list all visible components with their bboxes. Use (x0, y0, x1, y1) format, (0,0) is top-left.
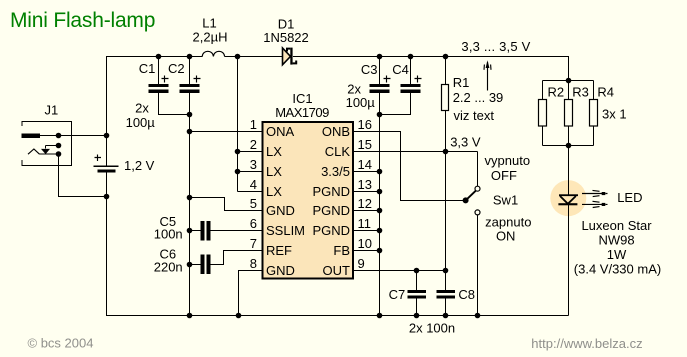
wire pin16 ONB to switch pole (353, 132, 466, 201)
wire LX rail with pins 2,3,4 (238, 56, 263, 192)
node C7 bottom junction (414, 313, 420, 319)
resistor R1 (442, 56, 449, 271)
capacitor C2 (159, 56, 201, 115)
svg-text:14: 14 (358, 157, 372, 172)
svg-text:PGND: PGND (312, 184, 350, 199)
svg-text:3: 3 (250, 157, 257, 172)
wire pin1 ONA (190, 131, 263, 133)
svg-text:16: 16 (358, 117, 372, 132)
op-amp U1: IC1 MAX1709 body (263, 122, 354, 279)
svg-text:http://www.belza.cz: http://www.belza.cz (531, 336, 642, 351)
IC1 right pin names ONB CLK 3.3/5 PGND PGND PGND FB OUT (312, 124, 350, 278)
svg-text:REF: REF (266, 243, 292, 258)
IC1 left pin names ONA LX LX LX GND SSLIM REF GND (266, 124, 305, 278)
svg-text:5: 5 (250, 196, 257, 211)
svg-text:2.2 ... 39: 2.2 ... 39 (453, 90, 504, 105)
svg-text:ONB: ONB (322, 124, 350, 139)
svg-text:LX: LX (266, 184, 282, 199)
svg-text:2x: 2x (135, 101, 149, 116)
svg-text:Luxeon Star: Luxeon Star (581, 218, 652, 233)
battery B1 1,2 V (94, 155, 119, 173)
wires pins 14,13,12,11,10 to PGND rail (353, 172, 380, 251)
node C1 top junction (156, 54, 162, 60)
node battery plus junction (104, 133, 110, 139)
node Sw1 wire/bottom bus junction (475, 313, 481, 319)
node pin1 junction (187, 129, 193, 135)
resistor R4 (590, 100, 598, 127)
svg-text:R4: R4 (597, 85, 614, 100)
svg-text:13: 13 (358, 177, 372, 192)
node pin13 junction (377, 189, 383, 195)
svg-text:7: 7 (250, 236, 257, 251)
svg-text:zapnuto: zapnuto (485, 214, 531, 229)
node C8 bottom junction (443, 313, 449, 319)
diode D1 (Schottky) (283, 48, 297, 65)
svg-text:OUT: OUT (323, 263, 351, 278)
svg-text:NW98: NW98 (598, 232, 634, 247)
svg-text:3.3/5: 3.3/5 (321, 164, 350, 179)
wire pin5 GND (190, 198, 263, 211)
svg-text:R3: R3 (572, 85, 589, 100)
node C8 top junction (443, 268, 449, 274)
svg-text:2x 100n: 2x 100n (409, 321, 455, 336)
svg-text:CLK: CLK (325, 144, 351, 159)
wire LED branch (568, 146, 570, 316)
resistor R2 (539, 100, 547, 127)
wire ground rail (C2 bottom to bottom bus) (189, 115, 191, 317)
node pin12 junction (377, 208, 383, 214)
J1 switched contact with arrow (41, 143, 61, 154)
svg-text:GND: GND (266, 203, 295, 218)
svg-text:SSLIM: SSLIM (266, 223, 305, 238)
wire bottom ground bus (107, 315, 569, 317)
capacitor C4 (380, 56, 422, 115)
svg-text:2: 2 (250, 137, 257, 152)
svg-text:ONA: ONA (266, 124, 295, 139)
svg-text:viz text: viz text (454, 108, 495, 123)
wire pin15 CLK to 3,3V node and OFF contact (353, 152, 478, 187)
capacitor C5 (187, 221, 262, 241)
node pin11 junction (377, 228, 383, 234)
svg-text:MAX1709: MAX1709 (275, 105, 329, 120)
node 3,3V junction (443, 149, 449, 155)
svg-text:GND: GND (266, 263, 295, 278)
svg-text:J1: J1 (45, 102, 59, 117)
node battery minus junction (104, 194, 110, 200)
svg-text:3,3 V: 3,3 V (450, 135, 481, 150)
svg-text:PGND: PGND (312, 203, 350, 218)
wire top supply bus (106, 56, 569, 58)
svg-text:Mini Flash-lamp: Mini Flash-lamp (10, 9, 155, 32)
wire PGND rail (C3 to bottom bus) (379, 115, 381, 317)
svg-text:3x 1: 3x 1 (602, 107, 627, 122)
svg-text:6: 6 (250, 216, 257, 231)
wire J1 tip contact to battery rail (40, 135, 107, 137)
svg-text:220n: 220n (154, 260, 183, 275)
node pin5 junction (187, 195, 193, 201)
svg-text:C8: C8 (458, 287, 475, 302)
node PGND rail/bottom bus junction (377, 313, 383, 319)
svg-text:C7: C7 (389, 287, 406, 302)
svg-text:IC1: IC1 (292, 91, 312, 106)
svg-text:C4: C4 (392, 62, 409, 77)
switch Sw1 (463, 186, 480, 215)
svg-text:© bcs 2004: © bcs 2004 (28, 335, 94, 350)
svg-text:C3: C3 (361, 62, 378, 77)
wire pin9 OUT (353, 270, 446, 272)
svg-text:9: 9 (358, 256, 365, 271)
node pin8 wire/bottom bus junction (236, 313, 242, 319)
svg-text:LX: LX (266, 144, 282, 159)
node resistor bank top junction (566, 78, 572, 84)
svg-text:4: 4 (250, 177, 257, 192)
node L1/D1 junction (235, 54, 241, 60)
wire Sw1 ON contact to bottom bus (477, 215, 479, 316)
svg-text:PGND: PGND (312, 223, 350, 238)
arrow to supply bus (487, 62, 489, 91)
svg-text:C1: C1 (139, 61, 156, 76)
value label Luxeon Star NW98 1W (3.4 V/330 mA) (574, 218, 661, 277)
node C2 top junction (187, 54, 193, 60)
node C1/C2 bottom junction (187, 112, 193, 118)
capacitor C3 (370, 56, 391, 115)
capacitor C1 (149, 56, 169, 115)
svg-text:12: 12 (358, 196, 372, 211)
wire resistor bank buses (543, 56, 594, 146)
svg-text:Sw1: Sw1 (493, 192, 518, 207)
node resistor bank bottom junction (566, 143, 572, 149)
svg-text:OFF: OFF (491, 168, 517, 183)
node pin3 junction (235, 169, 241, 175)
svg-text:3,3 ... 3,5 V: 3,3 ... 3,5 V (461, 39, 530, 54)
node J1 tip junction (56, 133, 62, 139)
resistor R3 (565, 100, 573, 127)
wire pin8 GND (239, 271, 263, 316)
node pin10 junction (377, 248, 383, 254)
node C4 top junction (408, 54, 414, 60)
svg-text:L1: L1 (202, 16, 216, 31)
svg-text:FB: FB (333, 243, 350, 258)
J1 blade contact (28, 149, 61, 157)
svg-text:ON: ON (496, 228, 516, 243)
node pin14 junction (377, 169, 383, 175)
svg-text:1N5822: 1N5822 (263, 30, 309, 45)
connector J1 power jack (22, 122, 72, 166)
svg-text:LED: LED (617, 190, 642, 205)
node C3/C4 bottom junction (377, 112, 383, 118)
svg-text:2,2µH: 2,2µH (193, 30, 228, 45)
svg-text:(3.4 V/330 mA): (3.4 V/330 mA) (574, 262, 661, 277)
inductor L1 (202, 51, 224, 56)
svg-text:R1: R1 (453, 75, 470, 90)
capacitor C8 (437, 271, 456, 317)
svg-text:1: 1 (250, 117, 257, 132)
node ground rail/bottom bus junction (187, 313, 193, 319)
svg-text:1,2 V: 1,2 V (124, 158, 155, 173)
svg-text:11: 11 (358, 216, 372, 231)
svg-text:100µ: 100µ (126, 115, 156, 130)
svg-text:100µ: 100µ (346, 95, 376, 110)
IC1 pin numbers 16-9 (358, 117, 372, 271)
svg-text:15: 15 (358, 137, 372, 152)
LED glow halo (550, 180, 586, 216)
svg-text:vypnuto: vypnuto (485, 153, 531, 168)
wire left battery rail (106, 56, 108, 316)
svg-text:R2: R2 (548, 85, 565, 100)
svg-text:10: 10 (358, 236, 372, 251)
node C7 top junction (414, 268, 420, 274)
svg-text:LX: LX (266, 164, 282, 179)
svg-text:100n: 100n (154, 226, 183, 241)
capacitor C6 (187, 251, 262, 275)
IC1 pin numbers 1-8 (250, 117, 257, 271)
node pin2 junction (235, 149, 241, 155)
svg-text:8: 8 (250, 256, 257, 271)
wire J1 sleeve to battery minus (59, 154, 107, 197)
svg-text:1W: 1W (607, 247, 627, 262)
node R1 top junction (443, 54, 449, 60)
node C3 top junction (377, 54, 383, 60)
capacitor C7 (408, 271, 427, 317)
LED D2 Luxeon Star (558, 194, 578, 205)
svg-text:C2: C2 (168, 61, 185, 76)
LED light arrows (582, 190, 608, 207)
